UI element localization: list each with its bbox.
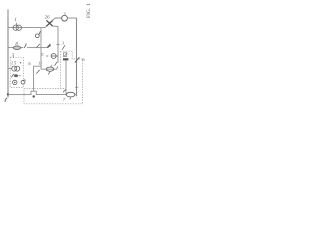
wire top feeder horizontal (8, 25, 48, 27)
wire circle to right bus (67, 17, 76, 19)
junction dot on left bus (7, 93, 9, 95)
bottom-left hook (5, 98, 7, 102)
switch arc with arrow (24, 43, 27, 48)
wire corner to relay drop (34, 66, 41, 91)
wire X to line circle (52, 18, 61, 21)
breaker X symbol (46, 20, 52, 26)
dashed enclosure big polygon (24, 51, 83, 104)
leader arrow at line start (36, 70, 39, 74)
leader tick below CT oval (48, 72, 50, 75)
label 4 with leader (50, 62, 57, 68)
label 3 with leader (62, 40, 65, 49)
stub with contact arrow (41, 44, 50, 48)
label 6 left of relay drop (28, 61, 31, 67)
label 15 inside box (11, 61, 21, 67)
svg-text:6: 6 (82, 57, 85, 63)
wire left bus vertical (7, 10, 9, 98)
wire second feeder horizontal right part (27, 47, 41, 49)
svg-text:FIG. 1: FIG. 1 (86, 3, 92, 18)
label 1 (14, 17, 17, 25)
machine M oval (66, 92, 76, 97)
wire bus to relay line (8, 94, 24, 96)
wire X to second vertical (53, 26, 58, 63)
label 6 glyph circle-tail (35, 31, 40, 37)
svg-text:3: 3 (62, 40, 65, 45)
svg-text:1: 1 (14, 17, 17, 23)
wire lower horizontal with CT oval (41, 67, 58, 70)
relay K1 contact hump (24, 91, 66, 94)
generator G2 double circle in box (8, 66, 20, 71)
svg-text:7: 7 (63, 97, 66, 103)
arrow near junction (37, 44, 40, 48)
CT oval T1 (46, 67, 54, 71)
bus switch diagonal arrow (75, 57, 80, 63)
svg-text:6: 6 (28, 61, 31, 67)
FIG. 1 caption (86, 3, 92, 18)
label 8 (15, 41, 18, 47)
cluster armature bar (63, 58, 68, 60)
svg-text:11: 11 (38, 61, 42, 66)
small meter circle in box (13, 80, 17, 84)
wire mid vertical (40, 28, 42, 70)
fuse F1 oval (13, 46, 20, 50)
leader arrow to machine (63, 89, 66, 92)
svg-text:15: 15 (11, 61, 17, 67)
svg-text:26: 26 (45, 14, 51, 20)
label 5 (41, 52, 44, 57)
svg-text:5: 5 (41, 52, 44, 57)
relay plunger dot (33, 95, 35, 97)
generator G1 (double circle) (13, 25, 21, 30)
wire second feeder horizontal left part (8, 47, 23, 49)
label 7 above left box (12, 53, 15, 58)
label 7 (63, 97, 66, 103)
left dashed enclosure (10, 57, 23, 87)
small circle with tick right (21, 79, 25, 84)
instrument circle U1 (62, 12, 68, 21)
tick on right bus (75, 86, 78, 88)
label 6 right of bus (82, 57, 85, 63)
leader tick below machine (69, 97, 72, 99)
small oval row in box (11, 74, 20, 77)
wire cluster vertical to machine (65, 60, 67, 94)
label 26 (45, 14, 51, 20)
label 11 (38, 61, 42, 66)
cluster contact symbol (63, 53, 67, 57)
wire right bus vertical (76, 18, 78, 96)
meter circle with bar (46, 54, 58, 59)
tick on second vertical (56, 43, 59, 45)
